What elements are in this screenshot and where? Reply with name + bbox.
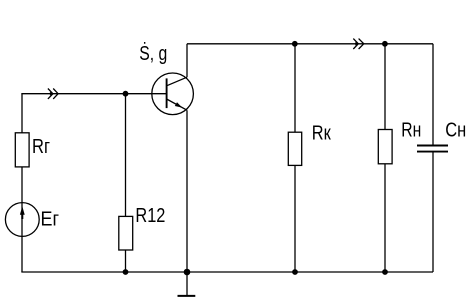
ground bar	[178, 295, 196, 297]
svg-text:Rг: Rг	[32, 135, 50, 158]
svg-text:Сн: Сн	[445, 118, 466, 141]
junction dot top rail Rк	[292, 41, 298, 47]
svg-text:Rн: Rн	[401, 119, 421, 142]
wire: Rк branch lower	[294, 165, 296, 272]
Eг source arrow	[20, 206, 25, 214]
wire: top rail	[187, 43, 433, 45]
capacitor Сн bottom plate	[417, 151, 448, 153]
wire: Сн branch upper	[432, 44, 434, 145]
ground stub	[186, 272, 188, 295]
base wire arrow tip	[50, 92, 53, 96]
junction dot bottom emitter/ground	[184, 269, 191, 276]
wire: left vertical top segment	[21, 94, 23, 133]
junction dot top rail Rн	[382, 41, 388, 47]
resistor Rн body	[378, 130, 392, 164]
transistor emitter diagonal	[167, 99, 187, 110]
transistor base bar	[166, 78, 168, 108]
transistor VT circle	[152, 73, 194, 115]
svg-text:Eг: Eг	[41, 207, 60, 230]
junction dot bottom Rн	[382, 269, 388, 275]
wire: emitter vertical	[186, 110, 188, 272]
svg-text:R12: R12	[135, 204, 165, 227]
transistor collector diagonal	[167, 77, 187, 86]
wire: Rк branch upper	[294, 44, 296, 132]
arrow chevrons on top rail	[353, 39, 358, 49]
junction dot bottom R12	[123, 269, 129, 275]
wire: Rн branch lower	[384, 164, 386, 272]
svg-text:Rк: Rк	[312, 121, 332, 144]
top rail arrow tip	[355, 42, 358, 46]
wire: R12 branch upper	[125, 94, 127, 217]
wire: left vertical through Eг	[21, 167, 23, 272]
emitter arrowhead	[175, 102, 182, 107]
resistor Rк body	[288, 132, 301, 165]
capacitor Сн top plate	[417, 145, 448, 147]
resistor Rг body	[15, 133, 29, 167]
junction dot bottom Rк	[292, 269, 298, 275]
wire: bottom rail	[21, 271, 433, 273]
source Eг circle	[5, 203, 39, 237]
wire: R12 branch lower	[125, 250, 127, 272]
wire: Rн branch upper	[384, 44, 386, 130]
wire: base wire horizontal	[21, 93, 166, 95]
wire: Сн branch lower	[432, 152, 434, 272]
arrow chevrons on base wire	[48, 89, 53, 99]
resistor R12 body	[119, 216, 133, 250]
junction dot base/R12	[123, 91, 129, 97]
wire: collector vertical	[186, 44, 188, 77]
svg-text:Ṡ, g: Ṡ, g	[139, 42, 167, 65]
